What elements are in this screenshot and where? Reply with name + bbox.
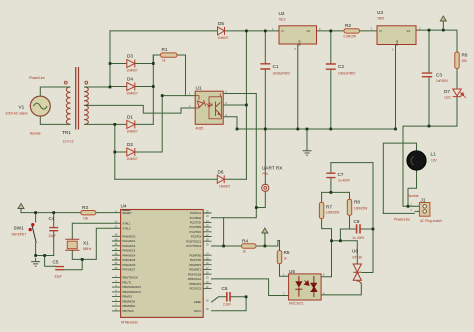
wire: R1 left lead bbox=[153, 54, 160, 56]
wire: U2 GND lead bbox=[297, 44, 299, 129]
svg-text:D3: D3 bbox=[127, 54, 133, 59]
svg-text:PC6/TOSC1: PC6/TOSC1 bbox=[186, 239, 201, 243]
label J1 bbox=[420, 198, 442, 224]
regulator U2 bbox=[279, 26, 317, 46]
wire: D6 net row y=179.3 bbox=[115, 178, 247, 180]
svg-text:100R/2W: 100R/2W bbox=[354, 207, 367, 211]
svg-text:GND: GND bbox=[298, 40, 302, 46]
label D6 bbox=[218, 170, 231, 189]
svg-text:PC5/TDI: PC5/TDI bbox=[191, 235, 202, 239]
wire: TR1 secondary top tap bbox=[88, 86, 110, 88]
wire: X1 top lead to XTAL1 bbox=[72, 223, 120, 239]
svg-text:U6: U6 bbox=[352, 249, 358, 254]
label R2 bbox=[344, 23, 356, 39]
wire: SW1 common lead bbox=[35, 213, 37, 222]
power arrow (R4 node) bbox=[262, 228, 268, 233]
wire: power arrow lead top left bbox=[20, 209, 22, 213]
label R4 bbox=[242, 239, 248, 254]
svg-text:PB2/AIN0/INT2: PB2/AIN0/INT2 bbox=[123, 285, 142, 289]
junction node (82,259) bbox=[81, 258, 84, 261]
svg-text:PB1/T1: PB1/T1 bbox=[123, 281, 132, 285]
junction node (307,129) bbox=[306, 128, 309, 131]
wire: C5 bottom plate to X1 bottom net bbox=[60, 259, 83, 270]
svg-text:PB3/AIN1/OC0: PB3/AIN1/OC0 bbox=[123, 290, 142, 294]
svg-text:PD0/RXD: PD0/RXD bbox=[190, 253, 202, 257]
wire: D1 cathode row bbox=[135, 123, 154, 125]
wire: R8 bottom lead to C8 row bbox=[349, 215, 351, 229]
wire: R1 right lead down to U1 pin1 bbox=[177, 55, 186, 96]
wire: TR1 secondary center tap to U1 pin2 bbox=[88, 105, 195, 113]
voltage source V1 bbox=[30, 96, 50, 116]
svg-text:UART RX: UART RX bbox=[262, 166, 283, 171]
svg-text:VO: VO bbox=[407, 29, 411, 33]
power arrow (U3 output +5V) bbox=[440, 16, 446, 21]
resistor R6 bbox=[455, 52, 459, 69]
svg-text:PD7/OC2: PD7/OC2 bbox=[190, 287, 202, 291]
svg-text:RESET: RESET bbox=[123, 211, 132, 215]
junction node (429,30) bbox=[428, 29, 431, 32]
junction node (256,208) bbox=[255, 206, 258, 209]
svg-text:TR1: TR1 bbox=[62, 130, 71, 135]
regulator U3 bbox=[377, 26, 416, 46]
capacitor C7 bbox=[326, 173, 335, 177]
wire: L1 bottom to J1 pin1 bbox=[408, 170, 417, 206]
wire: C8 left column to triac MT2 row bbox=[339, 229, 341, 241]
svg-text:PA7/ADC7: PA7/ADC7 bbox=[123, 268, 136, 272]
label C7 bbox=[338, 172, 351, 183]
wire: C4 column bbox=[53, 213, 55, 256]
svg-text:12V: 12V bbox=[431, 159, 438, 163]
junction node (443,30) bbox=[442, 29, 445, 32]
svg-text:VI: VI bbox=[379, 29, 382, 33]
label D5 bbox=[218, 21, 229, 40]
capacitor C6 bbox=[227, 292, 230, 302]
svg-text:R7: R7 bbox=[326, 205, 332, 210]
sounder L1 bbox=[407, 151, 426, 170]
diode D6 bbox=[217, 175, 224, 183]
wire: U1 pin5 bbox=[223, 104, 246, 106]
svg-text:PD4/OC1B: PD4/OC1B bbox=[188, 272, 202, 276]
svg-text:PC1/SDA: PC1/SDA bbox=[190, 216, 202, 220]
svg-text:1k: 1k bbox=[162, 59, 166, 63]
svg-text:C2: C2 bbox=[338, 64, 344, 69]
junction node (115,152) bbox=[113, 151, 116, 154]
label U5 bbox=[289, 269, 304, 306]
diode D4 bbox=[127, 83, 135, 91]
svg-text:LED: LED bbox=[445, 96, 452, 100]
pin numbers J1 bbox=[411, 204, 413, 212]
svg-text:PD2/INT0: PD2/INT0 bbox=[189, 263, 201, 267]
svg-text:PC4/TDO: PC4/TDO bbox=[190, 230, 202, 234]
capacitor C5 bbox=[55, 267, 64, 270]
wire: X1 bottom lead to XTAL2 bbox=[72, 228, 120, 259]
wire: R7 bottom to U5 pin6 bbox=[321, 219, 331, 277]
svg-text:2u 400V: 2u 400V bbox=[353, 236, 366, 240]
svg-text:PIN: PIN bbox=[263, 172, 269, 176]
junction node (332,241) bbox=[330, 239, 333, 242]
svg-text:SW1: SW1 bbox=[14, 226, 25, 231]
svg-text:U5: U5 bbox=[289, 269, 295, 274]
junction node (45,256) bbox=[43, 254, 46, 257]
terminal UART RX bbox=[262, 184, 269, 191]
svg-text:Nuetral: Nuetral bbox=[30, 132, 41, 136]
wire: V1 bottom lead to TR1 primary bottom bbox=[40, 116, 67, 124]
svg-text:PD1/TXD: PD1/TXD bbox=[190, 258, 201, 262]
svg-text:10k: 10k bbox=[83, 217, 89, 221]
svg-text:PB5/MOSI: PB5/MOSI bbox=[123, 300, 136, 304]
diode D3 bbox=[127, 60, 135, 68]
svg-text:U1: U1 bbox=[196, 86, 202, 91]
svg-text:1N4007: 1N4007 bbox=[218, 36, 229, 40]
wire: C2 column bbox=[330, 31, 332, 129]
wire: column x=223.6 bbox=[223, 218, 225, 246]
junction node (36,256) bbox=[34, 254, 37, 257]
svg-text:PB0/T0/XCK: PB0/T0/XCK bbox=[123, 276, 138, 280]
svg-text:C1: C1 bbox=[273, 64, 279, 69]
wire: C5 top plate feed bbox=[45, 256, 56, 267]
svg-text:PC2/TCK: PC2/TCK bbox=[190, 221, 202, 225]
svg-text:1N4007: 1N4007 bbox=[127, 92, 138, 96]
junction node (331,129) bbox=[329, 128, 332, 131]
resistor R2 bbox=[344, 29, 360, 33]
wire: D2 cathode to U1 pin1 column bbox=[135, 96, 162, 152]
svg-text:PA5/ADC5: PA5/ADC5 bbox=[123, 258, 136, 262]
label C4 bbox=[49, 216, 56, 238]
junction node (265,129) bbox=[264, 128, 267, 131]
wire: L1 top bracket bbox=[383, 143, 416, 213]
svg-text:7812: 7812 bbox=[279, 18, 286, 22]
svg-text:PB6/MISO: PB6/MISO bbox=[123, 304, 136, 308]
resistor R4 bbox=[242, 244, 257, 248]
svg-text:C6: C6 bbox=[222, 286, 228, 291]
svg-text:4N25: 4N25 bbox=[196, 127, 204, 131]
wire: triac MT2 row y=240.8 bbox=[332, 241, 358, 263]
svg-text:SW-SPDT: SW-SPDT bbox=[12, 233, 27, 237]
wire: D2 anode column x=114.8 bbox=[114, 124, 116, 179]
wire: U3 output rail to R6 bbox=[416, 30, 457, 52]
wire: bridge column x=110 bbox=[109, 31, 111, 87]
svg-text:1N4007: 1N4007 bbox=[127, 130, 138, 134]
svg-text:R2: R2 bbox=[345, 23, 351, 28]
svg-text:D7: D7 bbox=[444, 89, 450, 94]
wire: VCC rail to MCU RESET with R3 bbox=[21, 212, 121, 214]
svg-text:PC0/SCL: PC0/SCL bbox=[190, 211, 202, 215]
resistor R8 bbox=[347, 199, 351, 215]
junction node (162,96) bbox=[161, 94, 164, 97]
svg-text:8MHz: 8MHz bbox=[83, 247, 92, 251]
wire: C6 right lead bbox=[230, 296, 246, 298]
svg-text:U4: U4 bbox=[121, 204, 127, 209]
svg-text:R4: R4 bbox=[242, 239, 248, 244]
label U4 bbox=[121, 204, 138, 325]
resistor R5 bbox=[277, 251, 281, 264]
svg-text:GND: GND bbox=[395, 40, 399, 46]
junction node (110,64) bbox=[109, 62, 112, 65]
label U2 bbox=[279, 11, 286, 22]
label U6 bbox=[352, 249, 362, 260]
wire: R4 junction to R5 top bbox=[265, 241, 280, 251]
label UART RX bbox=[262, 166, 283, 177]
wire: column x=403 to J1 pin1 bbox=[403, 126, 415, 206]
junction node (331,31) bbox=[329, 30, 332, 33]
svg-text:100R/2W: 100R/2W bbox=[326, 211, 339, 215]
svg-text:D4: D4 bbox=[127, 77, 133, 82]
junction node (331,192) bbox=[330, 191, 333, 194]
transformer TR1 bbox=[64, 67, 88, 130]
wire: power arrow lead near R4 bbox=[264, 233, 266, 246]
svg-text:XTAL1: XTAL1 bbox=[123, 221, 132, 225]
label C6 bbox=[222, 286, 232, 307]
wire: C7 leads bbox=[330, 163, 332, 193]
junction node (237,129) bbox=[236, 128, 239, 131]
label TR1 bbox=[62, 130, 74, 144]
svg-text:R5: R5 bbox=[284, 250, 290, 255]
svg-text:220V AC mains: 220V AC mains bbox=[6, 112, 28, 116]
svg-text:AC Plug socket: AC Plug socket bbox=[420, 219, 442, 223]
svg-text:PA0/ADC0: PA0/ADC0 bbox=[123, 234, 136, 238]
svg-text:2u 400V: 2u 400V bbox=[338, 179, 351, 183]
wire: U1 pin6 to MCU column x=256.3 bbox=[212, 94, 257, 218]
optotriac U5 bbox=[289, 274, 322, 300]
wire: R2 right lead to U3 bbox=[360, 30, 378, 32]
svg-text:AVCC: AVCC bbox=[194, 309, 201, 313]
svg-text:ATMEGA32: ATMEGA32 bbox=[121, 321, 138, 325]
label R5 bbox=[284, 250, 290, 261]
wire: C8 right lead bbox=[361, 228, 373, 230]
junction node (396,129) bbox=[394, 128, 397, 131]
svg-text:XTAL2: XTAL2 bbox=[123, 226, 132, 230]
resistor R7 bbox=[319, 202, 323, 218]
svg-text:1N4007: 1N4007 bbox=[219, 185, 230, 189]
junction node (429,126) bbox=[428, 125, 431, 128]
svg-text:Phase/Line: Phase/Line bbox=[29, 76, 45, 80]
junction node (246,297) bbox=[245, 295, 248, 298]
svg-text:PA1/ADC1: PA1/ADC1 bbox=[123, 239, 136, 243]
wire: D2 anode row bbox=[115, 151, 127, 153]
svg-text:C8: C8 bbox=[354, 219, 360, 224]
diode D1 bbox=[127, 120, 135, 128]
wire: R7 top lead bbox=[321, 192, 323, 202]
svg-text:PD3/INT1: PD3/INT1 bbox=[189, 268, 201, 272]
wire: U3 GND lead bbox=[395, 45, 397, 130]
junction node (246,31) bbox=[245, 30, 248, 33]
junction node (110,87) bbox=[109, 86, 112, 89]
svg-text:1N4007: 1N4007 bbox=[127, 157, 138, 161]
svg-text:PD6/ICP1: PD6/ICP1 bbox=[189, 282, 201, 286]
wire: U1 pin4 to ground rail bbox=[223, 117, 237, 129]
svg-text:L1: L1 bbox=[431, 152, 437, 157]
microcontroller U4 ATMEGA32 bbox=[112, 210, 212, 318]
svg-text:PC7/TOSC2: PC7/TOSC2 bbox=[186, 244, 201, 248]
pin numbers U3 bbox=[371, 28, 422, 52]
junction node (298,129) bbox=[296, 128, 299, 131]
svg-text:D5: D5 bbox=[218, 21, 224, 26]
diode D2 bbox=[127, 148, 135, 156]
wire: ground row y=255.5 bbox=[36, 255, 54, 257]
svg-text:1uF/50V: 1uF/50V bbox=[436, 79, 449, 83]
svg-text:PA3/ADC3: PA3/ADC3 bbox=[123, 249, 136, 253]
wire: C7 top row to triac column bbox=[331, 162, 373, 164]
wire: snubber top row y=192.4 bbox=[322, 191, 350, 193]
svg-text:C5: C5 bbox=[53, 260, 59, 265]
label SW1 bbox=[12, 226, 27, 237]
wire: R4 row from MCU bbox=[212, 245, 265, 247]
ground symbol (SW1) bbox=[31, 258, 40, 266]
wire: C8 left lead bbox=[340, 228, 355, 230]
connector J1 bbox=[415, 203, 430, 217]
triac U6 bbox=[353, 263, 362, 283]
wire: U2 output to R2 bbox=[317, 30, 345, 32]
power arrow (reset rail) bbox=[18, 204, 24, 209]
diode D5 bbox=[218, 27, 225, 35]
ground symbol (main rail) bbox=[303, 147, 312, 155]
svg-text:R1: R1 bbox=[162, 47, 168, 52]
label R1 bbox=[162, 47, 168, 63]
wire: R5 bottom to U5 pin1 bbox=[280, 264, 289, 277]
svg-text:R3: R3 bbox=[82, 205, 88, 210]
wire: C6 column to AVCC row bbox=[212, 297, 247, 311]
wire: D4 cathode row bbox=[135, 86, 154, 88]
label U1 bbox=[196, 86, 204, 131]
wire: rectifier output column x=153.3 bbox=[152, 55, 154, 124]
capacitor C3 bbox=[422, 73, 432, 77]
svg-text:1N4007: 1N4007 bbox=[127, 69, 138, 73]
switch SW1 bbox=[29, 223, 37, 243]
wire: top DC rail from bridge to U2 bbox=[110, 30, 279, 32]
svg-text:U2: U2 bbox=[279, 11, 285, 16]
wire: TR1 secondary bottom tap to D1 anode bbox=[88, 123, 127, 125]
svg-text:12-0-12: 12-0-12 bbox=[63, 140, 74, 144]
junction node (115,124) bbox=[113, 123, 116, 126]
wire: UART RX terminal column bbox=[256, 129, 265, 208]
resistor R1 bbox=[161, 53, 178, 57]
capacitor C2 bbox=[326, 64, 336, 69]
junction node (54,213) bbox=[52, 211, 55, 214]
label R8 bbox=[354, 200, 367, 211]
svg-text:PA6/ADC6: PA6/ADC6 bbox=[123, 263, 136, 267]
junction node (373,229) bbox=[372, 228, 375, 231]
junction node (36,213) bbox=[34, 211, 37, 214]
label R6 bbox=[462, 53, 468, 64]
label D4 bbox=[127, 77, 138, 96]
wire: V1 top lead to TR1 primary top bbox=[40, 87, 67, 96]
svg-text:VI: VI bbox=[281, 29, 284, 33]
wire: D3 anode row bbox=[110, 63, 127, 65]
wire: C1 column bbox=[264, 31, 266, 129]
wire: U1 pin1 bbox=[162, 95, 195, 97]
pin numbers U2 bbox=[272, 28, 321, 51]
svg-text:PB7/SCK: PB7/SCK bbox=[123, 309, 135, 313]
label L1 bbox=[431, 152, 438, 163]
wire: power arrow lead at U3 output bbox=[442, 21, 444, 30]
label C2 bbox=[338, 64, 356, 76]
LED D7 bbox=[453, 89, 466, 98]
junction node (153,86) bbox=[152, 85, 155, 88]
label D2 bbox=[127, 142, 138, 161]
wire: column x=246.4 rail to D6 bbox=[245, 31, 247, 179]
svg-text:1000uF/50V: 1000uF/50V bbox=[338, 72, 356, 76]
wire: triac gate to U5 pin4 bbox=[321, 283, 361, 295]
wire: J1 pin2 Phase/Line row bbox=[383, 212, 414, 214]
label V1 bbox=[6, 105, 28, 116]
label D7 bbox=[444, 89, 451, 100]
wire: ground rail y=129 bbox=[237, 128, 396, 130]
label C1 bbox=[273, 64, 291, 76]
svg-text:Nuetral: Nuetral bbox=[408, 194, 419, 198]
label D1 bbox=[127, 115, 138, 134]
svg-text:D2: D2 bbox=[127, 142, 133, 147]
svg-text:22pF: 22pF bbox=[49, 234, 56, 238]
label C3 bbox=[436, 73, 449, 84]
wire: SW1 pole to ground junction bbox=[35, 243, 37, 256]
label D3 bbox=[127, 54, 138, 73]
svg-text:C3: C3 bbox=[436, 73, 442, 78]
svg-text:BT136: BT136 bbox=[353, 256, 363, 260]
wire: triac main column x=373 bbox=[362, 163, 373, 273]
svg-text:VO: VO bbox=[307, 29, 311, 33]
svg-text:390: 390 bbox=[462, 59, 468, 63]
capacitor C8 bbox=[357, 224, 360, 233]
wire: MCU PD5 to U5 pin2 bbox=[212, 279, 289, 296]
wire: D4 anode row bbox=[110, 86, 127, 88]
label C5 bbox=[53, 260, 62, 279]
svg-text:J1: J1 bbox=[421, 198, 426, 203]
optocoupler U1 bbox=[195, 91, 223, 124]
junction node (340,241) bbox=[339, 239, 342, 242]
svg-text:AREF: AREF bbox=[194, 300, 202, 304]
svg-text:R6: R6 bbox=[462, 53, 468, 58]
wire: D3 cathode to R1 column bbox=[135, 55, 154, 64]
svg-text:D6: D6 bbox=[218, 170, 224, 175]
svg-text:V1: V1 bbox=[19, 105, 25, 110]
svg-text:0.6R/2W: 0.6R/2W bbox=[344, 35, 356, 39]
svg-text:1k: 1k bbox=[243, 250, 247, 254]
junction node (265,31) bbox=[264, 30, 267, 33]
wire: MCU AREF diagonal to C6 bbox=[212, 297, 227, 302]
junction node (265,246) bbox=[264, 245, 267, 248]
svg-text:PD5/OC1A: PD5/OC1A bbox=[188, 277, 202, 281]
svg-text:D1: D1 bbox=[127, 115, 133, 120]
svg-text:U3: U3 bbox=[377, 10, 383, 15]
wire: R8 top lead bbox=[349, 192, 351, 199]
svg-text:PB4/SS: PB4/SS bbox=[123, 295, 133, 299]
resistor R3 bbox=[81, 211, 96, 215]
svg-text:PC3/TMS: PC3/TMS bbox=[190, 225, 202, 229]
svg-text:PA2/ADC2: PA2/ADC2 bbox=[123, 244, 136, 248]
svg-text:1000uF/50V: 1000uF/50V bbox=[273, 72, 291, 76]
svg-text:R8: R8 bbox=[354, 200, 360, 205]
junction node (246,105) bbox=[245, 104, 248, 107]
wire: ground stub below rail bbox=[306, 129, 308, 147]
capacitor C1 bbox=[260, 64, 270, 69]
wire: R6 to D7 bbox=[456, 69, 458, 89]
svg-text:7805: 7805 bbox=[377, 17, 384, 21]
label U3 bbox=[377, 10, 384, 21]
svg-text:C4: C4 bbox=[49, 216, 55, 221]
svg-text:C7: C7 bbox=[338, 172, 344, 177]
pin numbers U1 bbox=[189, 91, 228, 117]
svg-text:22pF: 22pF bbox=[55, 275, 62, 279]
svg-text:PA4/ADC4: PA4/ADC4 bbox=[123, 253, 136, 257]
wire: D7 cathode down bbox=[456, 97, 458, 127]
junction node (224,246) bbox=[222, 245, 225, 248]
label R7 bbox=[326, 205, 339, 215]
svg-text:X1: X1 bbox=[83, 241, 89, 246]
wire: C3 column bbox=[428, 30, 430, 126]
crystal X1 bbox=[65, 239, 79, 250]
pin numbers U5 bbox=[283, 274, 325, 296]
capacitor C4 bbox=[49, 228, 58, 231]
